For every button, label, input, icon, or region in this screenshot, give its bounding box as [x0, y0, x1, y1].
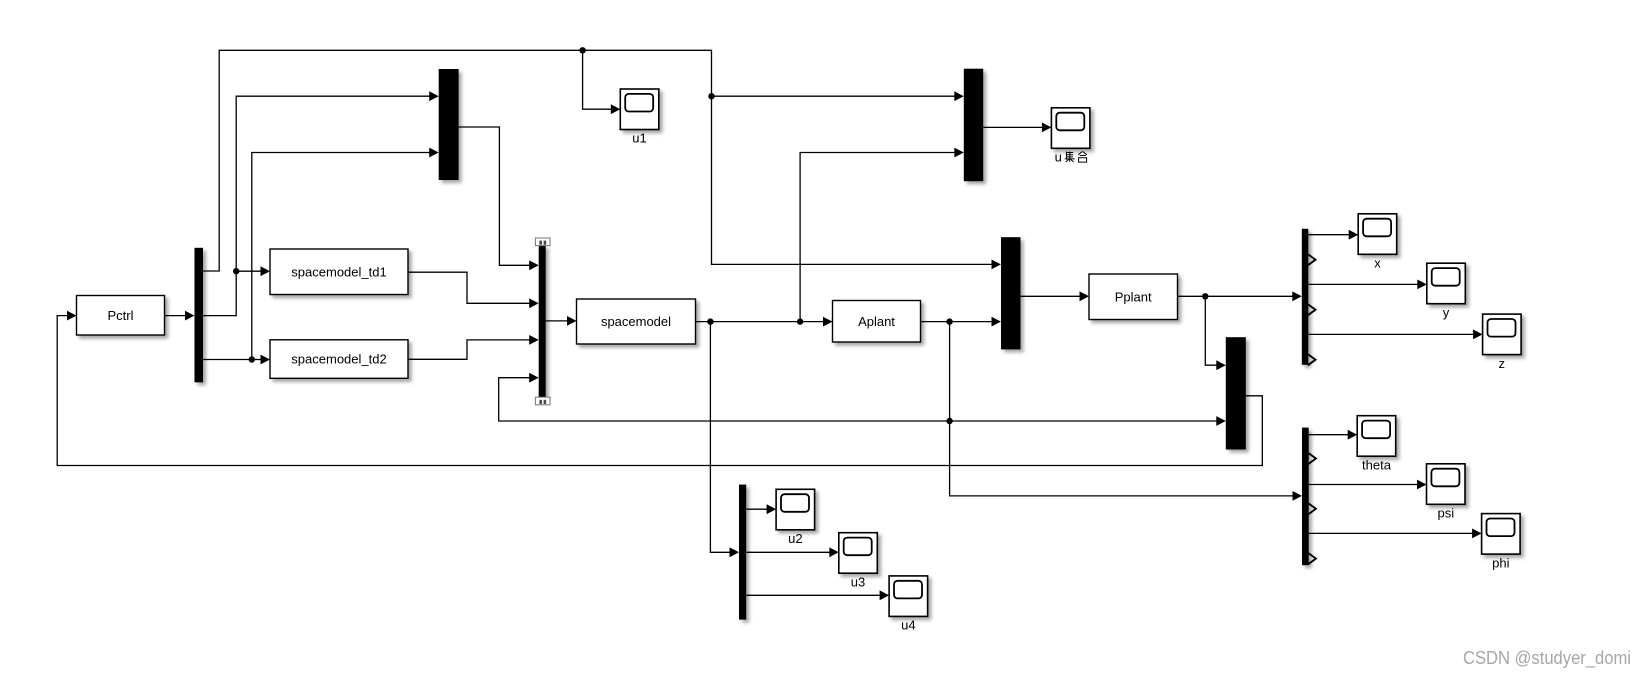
- arrowhead D_u in: [730, 547, 740, 557]
- wire D_xyz out1 -> x scope: [1308, 234, 1351, 236]
- svg-text:y: y: [1443, 305, 1450, 320]
- block Pplant: [1089, 274, 1178, 320]
- scope x: [1358, 214, 1397, 271]
- arrowhead z scope in: [1473, 330, 1483, 340]
- arrowhead theta scope in: [1348, 430, 1358, 440]
- arrowhead spacemodel in: [567, 316, 577, 326]
- mux M_r2: [1226, 337, 1246, 449]
- wire state bus right -> M_r2 in2: [950, 420, 1220, 422]
- junction top bus / u1 tap: [579, 47, 585, 53]
- svg-text:u: u: [1055, 150, 1062, 165]
- junction spacemodel out / D_u tap: [707, 318, 713, 324]
- wire D1 out3 -> spacemodel_td2 in: [203, 359, 264, 361]
- arrowhead M_mid in2: [529, 298, 539, 308]
- arrowhead M_u in2: [954, 148, 964, 158]
- junction top riser / M_u tap: [708, 93, 714, 99]
- svg-text:u4: u4: [901, 618, 915, 633]
- wire D_tpp out3 -> psi scope: [1309, 484, 1420, 486]
- badge M_mid bottom: [535, 397, 550, 405]
- arrowhead u4 scope in: [880, 590, 890, 600]
- svg-text:spacemodel: spacemodel: [601, 314, 671, 329]
- mux M_top: [439, 69, 459, 180]
- svg-text:z: z: [1499, 356, 1506, 371]
- junction spacemodel out / M_u tap: [797, 318, 803, 324]
- arrowhead u_all scope in: [1042, 123, 1052, 133]
- scope theta: [1357, 416, 1396, 473]
- wire D1 out1 -> top bus -> M_r1 in1: [203, 50, 995, 271]
- wire D_tpp out1 -> theta scope: [1309, 434, 1351, 436]
- svg-text:phi: phi: [1492, 555, 1509, 570]
- block Pctrl: [77, 296, 165, 336]
- arrowhead M_r2 in2: [1216, 416, 1226, 426]
- arrowhead M_r1 in2: [992, 317, 1002, 327]
- arrowhead spacemodel_td1 in: [261, 266, 271, 276]
- wire D_u out1 -> u2 scope: [746, 508, 769, 510]
- svg-text:u1: u1: [632, 131, 646, 146]
- wire M_u out -> u_all scope: [983, 126, 1045, 128]
- wire D1 out2 -> M_top in1: [203, 96, 432, 315]
- svg-text:theta: theta: [1362, 457, 1392, 472]
- demux D_tpp: [1302, 428, 1309, 566]
- arrowhead M_r2 in1: [1216, 360, 1226, 370]
- mux M_mid: [539, 245, 546, 397]
- port stub D_xyz out4: [1308, 304, 1316, 315]
- wire Aplant out -> M_r1 in2: [920, 321, 994, 323]
- arrowhead M_r1 in1: [992, 260, 1002, 270]
- badge M_mid top: [535, 238, 550, 246]
- arrowhead M_mid in1: [529, 260, 539, 270]
- mux M_u: [964, 69, 983, 182]
- svg-text:CSDN @studyer_domi: CSDN @studyer_domi: [1463, 647, 1631, 669]
- label text 集合 for scope u集合: [1065, 152, 1087, 163]
- scope u3: [839, 533, 878, 590]
- wire branch -> u1 scope: [583, 50, 614, 109]
- wire state bus left -> M_mid in4: [499, 378, 950, 421]
- arrowhead u1 scope in: [611, 104, 621, 114]
- arrowhead psi scope in: [1417, 480, 1427, 490]
- wire branch -> M_top in2: [252, 153, 432, 360]
- wire feedback M_r2 out -> Pctrl in: [57, 316, 1262, 466]
- wire branch -> M_u in1: [712, 95, 958, 97]
- scope u4: [889, 576, 928, 633]
- demux D_u: [739, 485, 746, 620]
- wire branch -> M_u in2: [800, 153, 957, 322]
- wire D_u out2 -> u3 scope: [746, 551, 832, 553]
- svg-text:x: x: [1374, 256, 1381, 271]
- svg-text:Pctrl: Pctrl: [108, 308, 134, 323]
- wire spacemodel_td2 out -> M_mid in3: [408, 340, 532, 359]
- block spacemodel_td1: [270, 249, 408, 295]
- demux D_xyz: [1302, 229, 1309, 365]
- arrowhead M_mid in4: [529, 373, 539, 383]
- svg-text:spacemodel_td1: spacemodel_td1: [291, 264, 386, 279]
- junction D1 out3 / td2 tap: [249, 356, 255, 362]
- junction Pplant out / M_r2 tap: [1202, 293, 1208, 299]
- arrowhead Pctrl in: [67, 311, 77, 321]
- arrowhead phi scope in: [1472, 529, 1482, 539]
- wire D_u out3 -> u4 scope: [746, 594, 882, 596]
- wire spacemodel out -> Aplant in: [696, 321, 827, 323]
- arrowhead Pplant in: [1080, 291, 1090, 301]
- svg-text:spacemodel_td2: spacemodel_td2: [291, 352, 386, 367]
- arrowhead u2 scope in: [767, 504, 777, 514]
- arrowhead u3 scope in: [829, 547, 839, 557]
- arrowhead M_u in1: [954, 91, 964, 101]
- wire Pctrl out -> D1 in: [165, 315, 189, 317]
- junction D1 out2 / td1 tap: [233, 268, 239, 274]
- wire M_r1 out -> Pplant in: [1021, 295, 1083, 297]
- block Aplant: [833, 301, 921, 343]
- arrowhead Aplant in: [823, 317, 833, 327]
- wire branch down -> D_tpp in: [950, 322, 1296, 496]
- arrowhead M_mid in3: [529, 335, 539, 345]
- arrowhead x scope in: [1349, 230, 1359, 240]
- port stub D_tpp out4: [1308, 503, 1316, 514]
- svg-text:u3: u3: [851, 574, 865, 589]
- block spacemodel: [577, 299, 696, 344]
- scope u2: [776, 489, 815, 546]
- demux D1: [195, 248, 204, 382]
- arrowhead M_top in1: [429, 91, 439, 101]
- port stub D_tpp out6: [1308, 553, 1316, 564]
- mux M_r1: [1001, 237, 1021, 349]
- svg-text:Aplant: Aplant: [858, 314, 895, 329]
- wire D_xyz out5 -> z scope: [1308, 333, 1476, 335]
- scope z: [1483, 314, 1522, 371]
- svg-text:Pplant: Pplant: [1115, 289, 1152, 304]
- arrowhead y scope in: [1417, 280, 1427, 290]
- junction Aplant out / state tap: [946, 318, 952, 324]
- scope u1: [620, 89, 659, 146]
- port stub D_tpp out2: [1308, 453, 1316, 464]
- arrowhead D_tpp in: [1293, 491, 1303, 501]
- port stub D_xyz out6: [1308, 354, 1316, 365]
- arrowhead D_xyz in: [1292, 291, 1302, 301]
- arrowhead spacemodel_td2 in: [261, 355, 271, 365]
- port stub D_xyz out2: [1308, 254, 1316, 265]
- block spacemodel_td2: [270, 340, 408, 379]
- arrowhead M_top in2: [429, 148, 439, 158]
- svg-text:psi: psi: [1437, 506, 1454, 521]
- wire D_xyz out3 -> y scope: [1308, 283, 1420, 285]
- junction state bus cross: [946, 418, 952, 424]
- scope phi: [1482, 514, 1521, 571]
- wire Pplant out -> D_xyz in: [1178, 295, 1296, 297]
- wire D_tpp out5 -> phi scope: [1309, 532, 1475, 534]
- scope psi: [1427, 464, 1466, 521]
- wire branch -> D_u in: [710, 322, 732, 553]
- wire branch -> M_r2 in1: [1205, 296, 1219, 365]
- wire M_mid out -> spacemodel in: [546, 320, 570, 322]
- svg-text:u2: u2: [788, 531, 802, 546]
- scope y: [1427, 263, 1466, 320]
- arrowhead D1 in: [185, 311, 195, 321]
- wire M_top out -> M_mid in1: [459, 127, 533, 265]
- scope u集合: [1051, 108, 1090, 165]
- wire branch -> spacemodel_td1 in: [236, 270, 263, 272]
- wire spacemodel_td1 out -> M_mid in2: [408, 272, 532, 303]
